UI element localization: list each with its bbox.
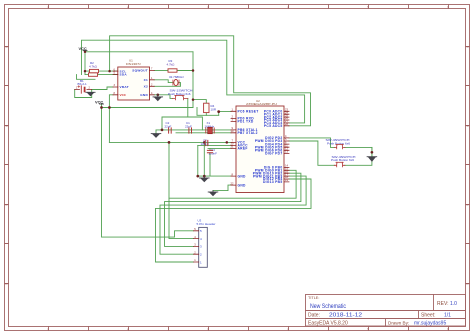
- wire R4 left loop down to reset node: [197, 108, 219, 116]
- svg-text:DIG13 PB5: DIG13 PB5: [263, 180, 283, 184]
- wire GND row pin8: [198, 175, 231, 177]
- wire C4 leg down: [209, 153, 211, 176]
- svg-text:22pF: 22pF: [165, 124, 172, 128]
- wire gnd xtal stub: [156, 130, 162, 133]
- switch SW2 push button: [326, 138, 351, 149]
- svg-text:2018-11-12: 2018-11-12: [329, 313, 362, 319]
- svg-text:DS1307z: DS1307z: [126, 62, 142, 66]
- svg-text:B: B: [6, 124, 8, 128]
- wire PD2 to SW2: [289, 138, 334, 148]
- ground switches: [367, 157, 377, 162]
- battery B1 BS.2-1: [75, 79, 92, 93]
- wire SW3 right up to gnd rail: [345, 147, 372, 165]
- crystal X1 16MHz: [205, 121, 215, 134]
- svg-text:C: C: [5, 203, 7, 207]
- wire VCC long row to U2 VCC: [109, 141, 231, 143]
- svg-text:A: A: [467, 45, 469, 49]
- svg-text:D: D: [466, 282, 468, 286]
- wire U1 VCC pin down to VCC rail: [109, 95, 113, 143]
- wire R3 to VCC leg: [177, 70, 193, 72]
- wire GND pin22: [213, 185, 231, 191]
- wire SW1 right up to rail: [187, 98, 189, 117]
- resistor R2: [89, 61, 99, 73]
- wire rail rectangle over xtal cluster: [162, 117, 202, 130]
- ground battery: [86, 92, 95, 96]
- VCC flag 2: [95, 99, 104, 104]
- wire R4 bottom to reset dot: [205, 113, 207, 116]
- svg-text:X2: X2: [144, 84, 148, 88]
- wire PD3 to SW3: [289, 141, 334, 165]
- header U3 5 Pin: [194, 219, 216, 268]
- capacitor C1: [185, 121, 192, 133]
- svg-text:Date:: Date:: [308, 313, 320, 319]
- wire VCC2 down-left long: [102, 108, 194, 238]
- wire VCC flag1 stub down to resistors: [84, 51, 86, 75]
- title block: [306, 295, 466, 327]
- switch SW1 push button: [168, 89, 193, 100]
- wire PB1 DIG9 to bus row1: [169, 170, 296, 198]
- svg-text:Push Button 6x6: Push Button 6x6: [331, 158, 354, 162]
- ground U2 pin22: [208, 191, 218, 197]
- resistor R1: [89, 73, 98, 76]
- svg-text:SQWOUT: SQWOUT: [132, 69, 148, 73]
- junction dots: [84, 51, 374, 178]
- svg-text:X1: X1: [144, 78, 148, 82]
- wire xtal upper row: [162, 129, 231, 131]
- wire C4 top stub: [209, 148, 211, 150]
- svg-text:10R: 10R: [211, 107, 217, 111]
- wire VCC rail down to header pin4: [169, 142, 194, 238]
- crystal Y1 32.768KHz: [169, 75, 184, 86]
- wire AVCC leg down to gnd row: [197, 145, 199, 176]
- svg-text:VBAT: VBAT: [120, 85, 129, 89]
- svg-text:DIG7 PD7: DIG7 PD7: [265, 152, 282, 156]
- svg-text:5 Pin Header: 5 Pin Header: [197, 222, 216, 226]
- svg-text:A: A: [6, 45, 8, 49]
- svg-text:TITLE:: TITLE:: [308, 296, 319, 300]
- svg-text:mr.sujaydas95: mr.sujaydas95: [414, 321, 446, 327]
- svg-text:AREF: AREF: [238, 147, 248, 151]
- wire battery VBAT link: [92, 87, 113, 90]
- ground xtal: [151, 134, 161, 138]
- wire X2 row to crystal: [154, 83, 180, 87]
- svg-text:VCC: VCC: [120, 93, 127, 97]
- capacitor C4: [207, 148, 217, 155]
- wire SDA row: [85, 74, 118, 76]
- resistor R4: [204, 103, 217, 112]
- svg-text:Sheet:: Sheet:: [421, 313, 435, 319]
- ground U1: [153, 95, 163, 101]
- wires green: [75, 36, 372, 262]
- wire VCC rail top: [85, 51, 193, 53]
- svg-text:ATMEGA328P-PU: ATMEGA328P-PU: [246, 102, 277, 106]
- svg-text:PC5 ADC5: PC5 ADC5: [264, 124, 283, 128]
- wire VCC vertical right leg through R3 area: [192, 52, 194, 108]
- wire xtal lower row: [176, 132, 231, 134]
- wire SCL row: [85, 70, 118, 72]
- switch SW3 push button: [331, 155, 356, 167]
- svg-text:EasyEDA V5.8.20: EasyEDA V5.8.20: [308, 321, 348, 327]
- capacitor C3: [201, 139, 210, 146]
- wire SQWOUT to R3: [154, 70, 168, 72]
- svg-text:New Schematic: New Schematic: [310, 303, 347, 310]
- svg-text:B: B: [467, 124, 469, 128]
- wire SW2 right to gnd rail: [345, 146, 372, 148]
- svg-text:BS.2-1: BS.2-1: [78, 82, 88, 86]
- wire gnd rail stub: [371, 147, 373, 157]
- svg-text:1/1: 1/1: [444, 313, 451, 319]
- wire reset dot to PC6 RESET: [219, 112, 231, 116]
- svg-text:D: D: [5, 282, 7, 286]
- wire C3 leg down: [203, 142, 205, 176]
- wire VCC2 row to R leg: [102, 107, 194, 109]
- wire AVCC row: [198, 144, 231, 146]
- VCC flag 1: [79, 46, 88, 51]
- svg-text:GND: GND: [140, 93, 148, 97]
- wire R1 lower loop: [77, 75, 96, 80]
- capacitor C2: [165, 121, 172, 133]
- svg-text:REV:: REV:: [437, 301, 448, 307]
- svg-text:VCC: VCC: [79, 46, 87, 51]
- svg-text:1.0: 1.0: [450, 301, 457, 307]
- wire battery loop: [75, 90, 92, 98]
- wire R4 top jog: [193, 100, 206, 104]
- wire VCC2 stub: [101, 104, 103, 108]
- svg-text:4.7kΩ: 4.7kΩ: [167, 62, 176, 66]
- svg-text:4.7kΩ: 4.7kΩ: [89, 64, 98, 68]
- svg-text:GND: GND: [238, 174, 247, 178]
- svg-text:PB7 XTAL2: PB7 XTAL2: [238, 131, 258, 135]
- ground U2 pin8: [200, 176, 210, 182]
- svg-text:PC6 RESET: PC6 RESET: [238, 110, 259, 114]
- wire SCL net A: R2 junction up over to PC5 ADC5: [110, 36, 311, 126]
- IC U1 DS1307: [113, 59, 154, 101]
- wire PB4 DIG12 to bus row4 and header pin1: [156, 179, 312, 262]
- wire AREF row: [208, 147, 231, 149]
- wire PB3 DIG11 to bus row3 and header pin2: [160, 176, 306, 254]
- resistor R3: [167, 59, 178, 72]
- wire SDA net B: R1 loop up over to PC4 ADC4: [82, 40, 305, 123]
- wire PB2 DIG10 to bus row2 and header pin4: [165, 173, 301, 246]
- svg-text:GND: GND: [238, 183, 247, 187]
- svg-text:32.768KHz: 32.768KHz: [169, 75, 184, 79]
- svg-text:Drawn By:: Drawn By:: [388, 321, 409, 326]
- svg-text:PD1 TXD: PD1 TXD: [238, 120, 254, 124]
- wire X1 row to crystal: [154, 80, 173, 83]
- svg-text:C: C: [466, 203, 468, 207]
- svg-text:SDA: SDA: [120, 73, 128, 77]
- IC U2 ATMEGA328P-PU: [231, 99, 290, 193]
- wire U1 GND row to switch SW1: [154, 95, 172, 99]
